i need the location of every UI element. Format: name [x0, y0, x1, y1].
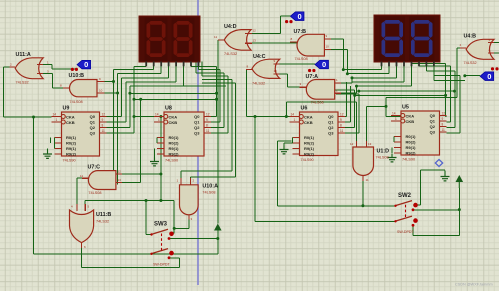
- svg-text:10: 10: [274, 69, 278, 73]
- svg-text:R9(1): R9(1): [406, 145, 417, 150]
- power terminal arrow left: [214, 224, 222, 231]
- svg-text:74LS08: 74LS08: [295, 57, 308, 61]
- svg-text:8: 8: [206, 124, 208, 128]
- svg-text:0: 0: [84, 60, 88, 69]
- svg-text:CKB: CKB: [169, 120, 178, 125]
- switch SW3 SW-DPDT: [150, 222, 174, 267]
- wire U7A in1: [335, 78, 352, 83]
- wire SW2 common left branch: [278, 141, 292, 206]
- svg-text:U11:A: U11:A: [16, 52, 31, 58]
- 7-segment display DISP1 (red): [139, 16, 200, 66]
- junction U11B rail: [159, 199, 162, 202]
- wire disp1 pin1: [134, 62, 146, 67]
- probe dots near U10:B flag: [71, 68, 78, 71]
- junction U7B in1: [342, 68, 345, 71]
- svg-text:14: 14: [155, 113, 159, 117]
- junction cross link a: [128, 92, 131, 95]
- wire disp1 pin6: [130, 62, 226, 87]
- junction right cross a: [357, 90, 360, 93]
- probe dots near U7:B flag: [285, 20, 293, 23]
- wire U7C input2: [116, 99, 141, 182]
- wire U4B inputs: [492, 43, 499, 54]
- svg-text:U4:B: U4:B: [464, 34, 477, 40]
- svg-text:12: 12: [206, 113, 210, 117]
- pin U7:C stubs: [82, 174, 122, 182]
- junction cross link b2: [215, 98, 218, 101]
- wire U4C in2 from U7A: [280, 74, 307, 87]
- wire SW3 upper common drop: [146, 201, 152, 235]
- wire right v x460: [447, 76, 461, 133]
- svg-text:Q0: Q0: [194, 114, 200, 119]
- ground U8: [150, 158, 159, 166]
- svg-text:74LS08: 74LS08: [70, 100, 83, 104]
- wire U8 CKA: [134, 116, 161, 118]
- svg-text:11: 11: [366, 178, 369, 182]
- wire SW2 throw1: [417, 170, 446, 205]
- svg-text:0: 0: [487, 72, 491, 81]
- svg-text:Q2: Q2: [194, 125, 200, 130]
- pin U11:B stubs: [77, 204, 85, 248]
- svg-text:R9(2): R9(2): [406, 151, 417, 156]
- wire U11B out: [82, 243, 180, 268]
- probe dots near U7:A flag: [308, 69, 316, 72]
- wire U1D out: [278, 177, 363, 206]
- pin numbers U4:D: [214, 29, 256, 43]
- wire disp2 pin5: [357, 62, 412, 87]
- svg-text:R0(2): R0(2): [406, 140, 417, 145]
- pin numbers U4:C: [247, 59, 278, 73]
- svg-text:11: 11: [442, 128, 446, 132]
- svg-text:10: 10: [99, 89, 103, 93]
- wire elbow to U10A in2: [190, 83, 235, 185]
- svg-text:11: 11: [340, 129, 344, 133]
- wire disp2 pin7: [419, 62, 450, 67]
- and-gate U7:A 74LS08: [306, 80, 334, 100]
- wire bundle v x113.5: [113, 70, 115, 176]
- wire bundle v x125.8: [107, 82, 126, 122]
- wire disp2 pin8: [426, 62, 455, 72]
- pin U4:C stubs: [246, 64, 280, 74]
- counter U8 74LS90: [154, 106, 211, 163]
- svg-text:9: 9: [206, 118, 208, 122]
- svg-text:12: 12: [340, 113, 344, 117]
- svg-text:8: 8: [340, 124, 342, 128]
- svg-text:R0(2): R0(2): [304, 141, 315, 146]
- wire disp1 pin8 to U8 Q1: [199, 62, 221, 123]
- svg-text:U9: U9: [63, 106, 70, 112]
- wire disp1 pin2: [114, 62, 154, 70]
- ground U6: [280, 146, 289, 154]
- svg-text:74LS32: 74LS32: [96, 220, 109, 224]
- wire disp1 pin5: [126, 62, 176, 83]
- wire disp2 pin1: [343, 62, 381, 70]
- junction U7A in1: [351, 76, 354, 79]
- junction U1D in2: [385, 105, 388, 108]
- svg-text:Q2: Q2: [328, 125, 334, 130]
- and-gate U1:D 74LS08: [353, 147, 374, 176]
- pin numbers U7:B: [291, 34, 330, 49]
- svg-text:U10:B: U10:B: [69, 73, 85, 79]
- pin numbers U10:B: [60, 77, 103, 93]
- svg-text:R0(1): R0(1): [66, 135, 77, 140]
- junction cross link a2: [215, 92, 218, 95]
- pin U10:A stubs: [181, 178, 190, 220]
- svg-text:14: 14: [291, 113, 295, 117]
- wire disp1 pin9 to U8 Q2: [196, 62, 224, 128]
- svg-text:Q2: Q2: [90, 125, 96, 130]
- wire disp2 pin6: [412, 62, 446, 64]
- svg-text:CSDN @WXFJammm: CSDN @WXFJammm: [455, 283, 493, 287]
- 7-segment display DISP2 (blue): [374, 15, 440, 66]
- wire SW3 lower throw: [170, 258, 180, 267]
- counter U6 74LS90: [290, 106, 346, 163]
- svg-text:74LS08: 74LS08: [376, 156, 389, 160]
- or-gate U4:D 74LS32: [224, 30, 251, 51]
- svg-text:13: 13: [368, 142, 372, 146]
- wire elbow to U10A in1: [181, 80, 232, 185]
- svg-text:CKA: CKA: [66, 114, 75, 119]
- wire U10B input1: [97, 81, 114, 83]
- wire branch to SW2 lower common: [255, 117, 396, 222]
- pin U11:A output: [10, 66, 16, 68]
- svg-text:Q1: Q1: [194, 120, 200, 125]
- svg-text:8: 8: [442, 123, 444, 127]
- svg-text:R0(1): R0(1): [169, 135, 180, 140]
- pin U11:A inputs: [37, 65, 43, 74]
- svg-text:9: 9: [102, 118, 104, 122]
- junction U1D out: [361, 204, 364, 207]
- wire U1D in2: [367, 106, 386, 147]
- svg-text:U4:C: U4:C: [253, 54, 266, 60]
- svg-text:12: 12: [350, 142, 354, 146]
- svg-text:9: 9: [340, 118, 342, 122]
- svg-text:SW2: SW2: [398, 193, 412, 199]
- wire bundle v x358.8: [336, 94, 359, 133]
- ground U9: [43, 149, 52, 158]
- svg-text:14: 14: [53, 113, 57, 117]
- wire U6 reset cluster: [284, 138, 293, 149]
- wire disp2 pin2: [347, 62, 389, 74]
- junction right cross b: [353, 94, 356, 97]
- wire bundle v x354.7: [330, 90, 355, 128]
- svg-text:13: 13: [253, 39, 257, 43]
- wire U4B out to U5 CKA: [386, 48, 466, 117]
- wire left vertical to bottom rail: [34, 117, 218, 254]
- wire SW2 common to lever: [363, 205, 396, 207]
- pin U1:D stubs: [356, 141, 366, 181]
- logic-state flag 0 near U7:A: [315, 60, 329, 69]
- wire U11B in2 rail: [85, 201, 174, 234]
- svg-text:Q3: Q3: [328, 131, 334, 136]
- logic-state flag 0 near U7:B: [290, 12, 304, 21]
- counter U9 74LS90: [52, 106, 107, 163]
- svg-text:Q1: Q1: [90, 120, 96, 125]
- svg-text:74LS08: 74LS08: [202, 191, 215, 195]
- svg-text:74LS32: 74LS32: [464, 61, 477, 65]
- pin numbers U4:B: [460, 38, 491, 53]
- wire disp1 pin4: [122, 62, 169, 78]
- svg-text:U7:C: U7:C: [88, 164, 101, 170]
- wire cross link y99.3: [134, 98, 217, 100]
- svg-text:74LS08: 74LS08: [88, 191, 101, 195]
- junction U10A-SW3: [173, 227, 176, 230]
- wire arrow2 down rail: [413, 188, 459, 236]
- junction SW2 rail: [458, 208, 461, 211]
- svg-text:13: 13: [118, 178, 122, 182]
- wire U4D out to arrow: [218, 40, 225, 224]
- svg-text:74LS32: 74LS32: [252, 82, 265, 86]
- wire right v x445.6: [445, 64, 448, 117]
- junction U7C in1: [159, 173, 162, 176]
- wire U10B input2: [97, 92, 118, 94]
- svg-text:U1:D: U1:D: [377, 149, 390, 155]
- wire right v x455.2: [447, 71, 456, 128]
- svg-text:Q3: Q3: [194, 131, 200, 136]
- pin U7:B stubs: [290, 39, 331, 49]
- or-gate U11:A 74LS32: [15, 58, 43, 79]
- junction CKA branch: [254, 115, 257, 118]
- svg-text:11: 11: [102, 129, 106, 133]
- counter U5 74LS90: [391, 105, 447, 162]
- junction right bundle a: [444, 94, 447, 97]
- junction U7A in2: [355, 85, 358, 88]
- svg-text:U6: U6: [301, 106, 308, 112]
- wire bundle v x129.9: [107, 86, 130, 127]
- wire U4D in2 from U7B out: [251, 42, 297, 44]
- junction CKA down: [159, 115, 162, 118]
- and-gate U7:B 74LS08: [297, 34, 324, 56]
- svg-text:74LS90: 74LS90: [402, 158, 415, 162]
- wire CKA net down: [160, 117, 162, 201]
- wire U10B out to U11A in2: [40, 74, 70, 89]
- wire U4D in1 to flag2: [251, 16, 290, 33]
- svg-text:CKB: CKB: [304, 120, 313, 125]
- junction flag4: [463, 74, 466, 77]
- and-gate U10:A 74LS08: [180, 185, 199, 215]
- wire disp1 pin7 to U8 Q0: [191, 62, 217, 117]
- svg-text:U7:A: U7:A: [306, 74, 319, 80]
- svg-text:14: 14: [392, 112, 396, 116]
- wire SW2 mid throw: [414, 209, 460, 211]
- wire right v x450.4: [447, 66, 451, 122]
- junction U7C in2: [139, 98, 142, 101]
- logic-state flag 0 near U10:B: [77, 60, 91, 69]
- wire U7C input1: [116, 173, 161, 175]
- pin U7:A stubs: [300, 83, 342, 93]
- or-gate U4:B 74LS32: [466, 39, 494, 59]
- wire disp1 pin3: [118, 62, 162, 74]
- svg-text:74LS90: 74LS90: [301, 158, 314, 162]
- and-gate U7:C 74LS08: [88, 171, 116, 190]
- svg-text:U4:D: U4:D: [224, 24, 237, 30]
- svg-text:U7:B: U7:B: [294, 29, 307, 35]
- pin numbers U7:C: [80, 170, 121, 183]
- svg-text:1: 1: [395, 117, 397, 121]
- wire U4C out to U6 CKA: [246, 69, 291, 116]
- and-gate U10:B 74LS08: [70, 80, 98, 97]
- wire U8 reset cluster: [155, 138, 158, 158]
- pin numbers U1:D: [350, 142, 372, 182]
- svg-text:74LS32: 74LS32: [224, 52, 237, 56]
- wire U7B in1: [324, 39, 343, 70]
- wire disp2 pin3: [352, 62, 397, 78]
- svg-text:SW3: SW3: [154, 222, 168, 228]
- svg-text:Q0: Q0: [328, 114, 334, 119]
- junction cross link b: [133, 98, 136, 101]
- wire right cross link y95.4: [355, 94, 446, 96]
- wire disp2 pin9: [434, 62, 460, 76]
- svg-text:R9(1): R9(1): [169, 146, 180, 151]
- or-gate U4:C 74LS32: [252, 59, 280, 78]
- svg-text:U8: U8: [165, 106, 172, 112]
- svg-text:CKA: CKA: [169, 114, 178, 119]
- svg-text:R0(1): R0(1): [406, 134, 417, 139]
- junction U7B in2: [346, 72, 349, 75]
- wire U1D in1: [286, 102, 356, 147]
- wire U11A input1 to flag: [40, 65, 77, 69]
- pin numbers U10:A: [177, 179, 195, 222]
- wire U7A in2: [335, 86, 357, 93]
- svg-text:R9(2): R9(2): [66, 152, 77, 157]
- wire flag4: [465, 75, 480, 77]
- pin numbers U11:B: [71, 205, 90, 250]
- pin U10:B stubs: [63, 82, 105, 94]
- svg-text:Q0: Q0: [90, 114, 96, 119]
- junction U1D in1: [285, 115, 288, 118]
- svg-text:Q3: Q3: [430, 130, 436, 135]
- svg-text:9: 9: [442, 117, 444, 121]
- wire bundle v x121.7: [107, 78, 122, 117]
- svg-text:CKB: CKB: [66, 120, 75, 125]
- junction right bundle b: [453, 90, 456, 93]
- junction U9Q3 to CKA: [133, 115, 136, 118]
- wire arrow1 down rail: [217, 231, 219, 254]
- svg-text:R0(1): R0(1): [304, 135, 315, 140]
- svg-text:10: 10: [326, 45, 330, 49]
- pin numbers U7:A: [300, 78, 339, 93]
- junction x113.5 U10B: [112, 80, 115, 83]
- wire bundle v x350.6: [345, 86, 351, 122]
- svg-text:0: 0: [322, 60, 326, 69]
- svg-text:R9(2): R9(2): [169, 152, 180, 157]
- svg-text:74LS08: 74LS08: [311, 101, 324, 105]
- svg-text:74LS90: 74LS90: [63, 159, 76, 163]
- wire U11A output to U9 CKA: [4, 67, 52, 117]
- svg-text:11: 11: [80, 174, 83, 178]
- wire U7B in2: [324, 49, 347, 73]
- power terminal arrow right: [456, 175, 464, 188]
- svg-text:Q0: Q0: [430, 113, 436, 118]
- wire bundle v x346.5: [345, 82, 347, 117]
- ground SW2: [441, 171, 450, 181]
- svg-text:11: 11: [206, 129, 210, 133]
- svg-text:U10:A: U10:A: [202, 184, 218, 190]
- wire bundle v x134 Q3: [107, 67, 135, 133]
- wire cross link y93.3: [130, 92, 217, 94]
- wire U5 reset cluster: [392, 137, 394, 154]
- svg-text:1: 1: [158, 118, 160, 122]
- svg-text:R9(1): R9(1): [66, 146, 77, 151]
- svg-text:12: 12: [102, 113, 106, 117]
- svg-text:CKB: CKB: [406, 119, 415, 124]
- svg-text:12: 12: [442, 112, 446, 116]
- origin marker diamond: [435, 160, 442, 167]
- svg-text:SW-DPDT: SW-DPDT: [153, 262, 171, 266]
- wire disp1 pin10 to U8 Q3: [202, 62, 228, 134]
- svg-text:R9(2): R9(2): [304, 152, 315, 157]
- pin U4:D stubs: [218, 33, 252, 43]
- wire right cross link y91.1: [359, 90, 455, 92]
- ground U5: [388, 154, 397, 162]
- svg-text:CKA: CKA: [406, 113, 415, 118]
- or-gate U11:B 74LS32: [70, 210, 94, 243]
- svg-text:Q1: Q1: [328, 120, 334, 125]
- pin numbers U11:A: [10, 61, 49, 74]
- blue cursor line: [197, 0, 199, 285]
- wire disp2 pin10: [434, 76, 465, 81]
- junction SW3 common drop: [145, 199, 148, 202]
- svg-text:R0(2): R0(2): [66, 141, 77, 146]
- svg-text:12: 12: [253, 29, 257, 33]
- svg-text:12: 12: [118, 170, 122, 174]
- junction U11A-CKA at x33.5: [32, 116, 35, 119]
- svg-text:Q1: Q1: [430, 119, 436, 124]
- logic-state flag 0 near U4:B: [480, 72, 494, 81]
- svg-text:74LS90: 74LS90: [165, 159, 178, 163]
- probe dots near U4:B flag: [491, 67, 499, 70]
- svg-text:Q3: Q3: [90, 131, 96, 136]
- wire disp2 pin4: [352, 62, 404, 83]
- svg-text:1: 1: [294, 118, 296, 122]
- svg-text:8: 8: [102, 124, 104, 128]
- junction SW3 rail: [216, 237, 219, 240]
- svg-text:11: 11: [214, 35, 217, 39]
- svg-text:74LS32: 74LS32: [16, 81, 29, 85]
- wire U7C out to U11B: [77, 178, 89, 210]
- pin U4:B stubs: [460, 43, 494, 54]
- svg-text:0: 0: [298, 12, 302, 21]
- svg-text:SW-DPDT: SW-DPDT: [397, 230, 415, 234]
- wire U9 reset cluster: [48, 138, 55, 155]
- svg-text:U11:B: U11:B: [96, 212, 111, 218]
- wire U10A out: [174, 213, 189, 229]
- svg-text:Q2: Q2: [430, 124, 436, 129]
- switch SW2 SW-DPDT: [394, 193, 418, 234]
- svg-text:CKA: CKA: [304, 114, 313, 119]
- wire SW3 mid throw rail: [170, 238, 218, 240]
- svg-text:R0(2): R0(2): [169, 141, 180, 146]
- wire bundle v x117.6: [117, 74, 119, 185]
- svg-text:R9(1): R9(1): [304, 146, 315, 151]
- svg-text:1: 1: [56, 118, 58, 122]
- svg-text:U5: U5: [402, 105, 409, 111]
- junction x117.6 U10B: [116, 92, 119, 95]
- wire U4C in1 to flag3: [280, 63, 315, 65]
